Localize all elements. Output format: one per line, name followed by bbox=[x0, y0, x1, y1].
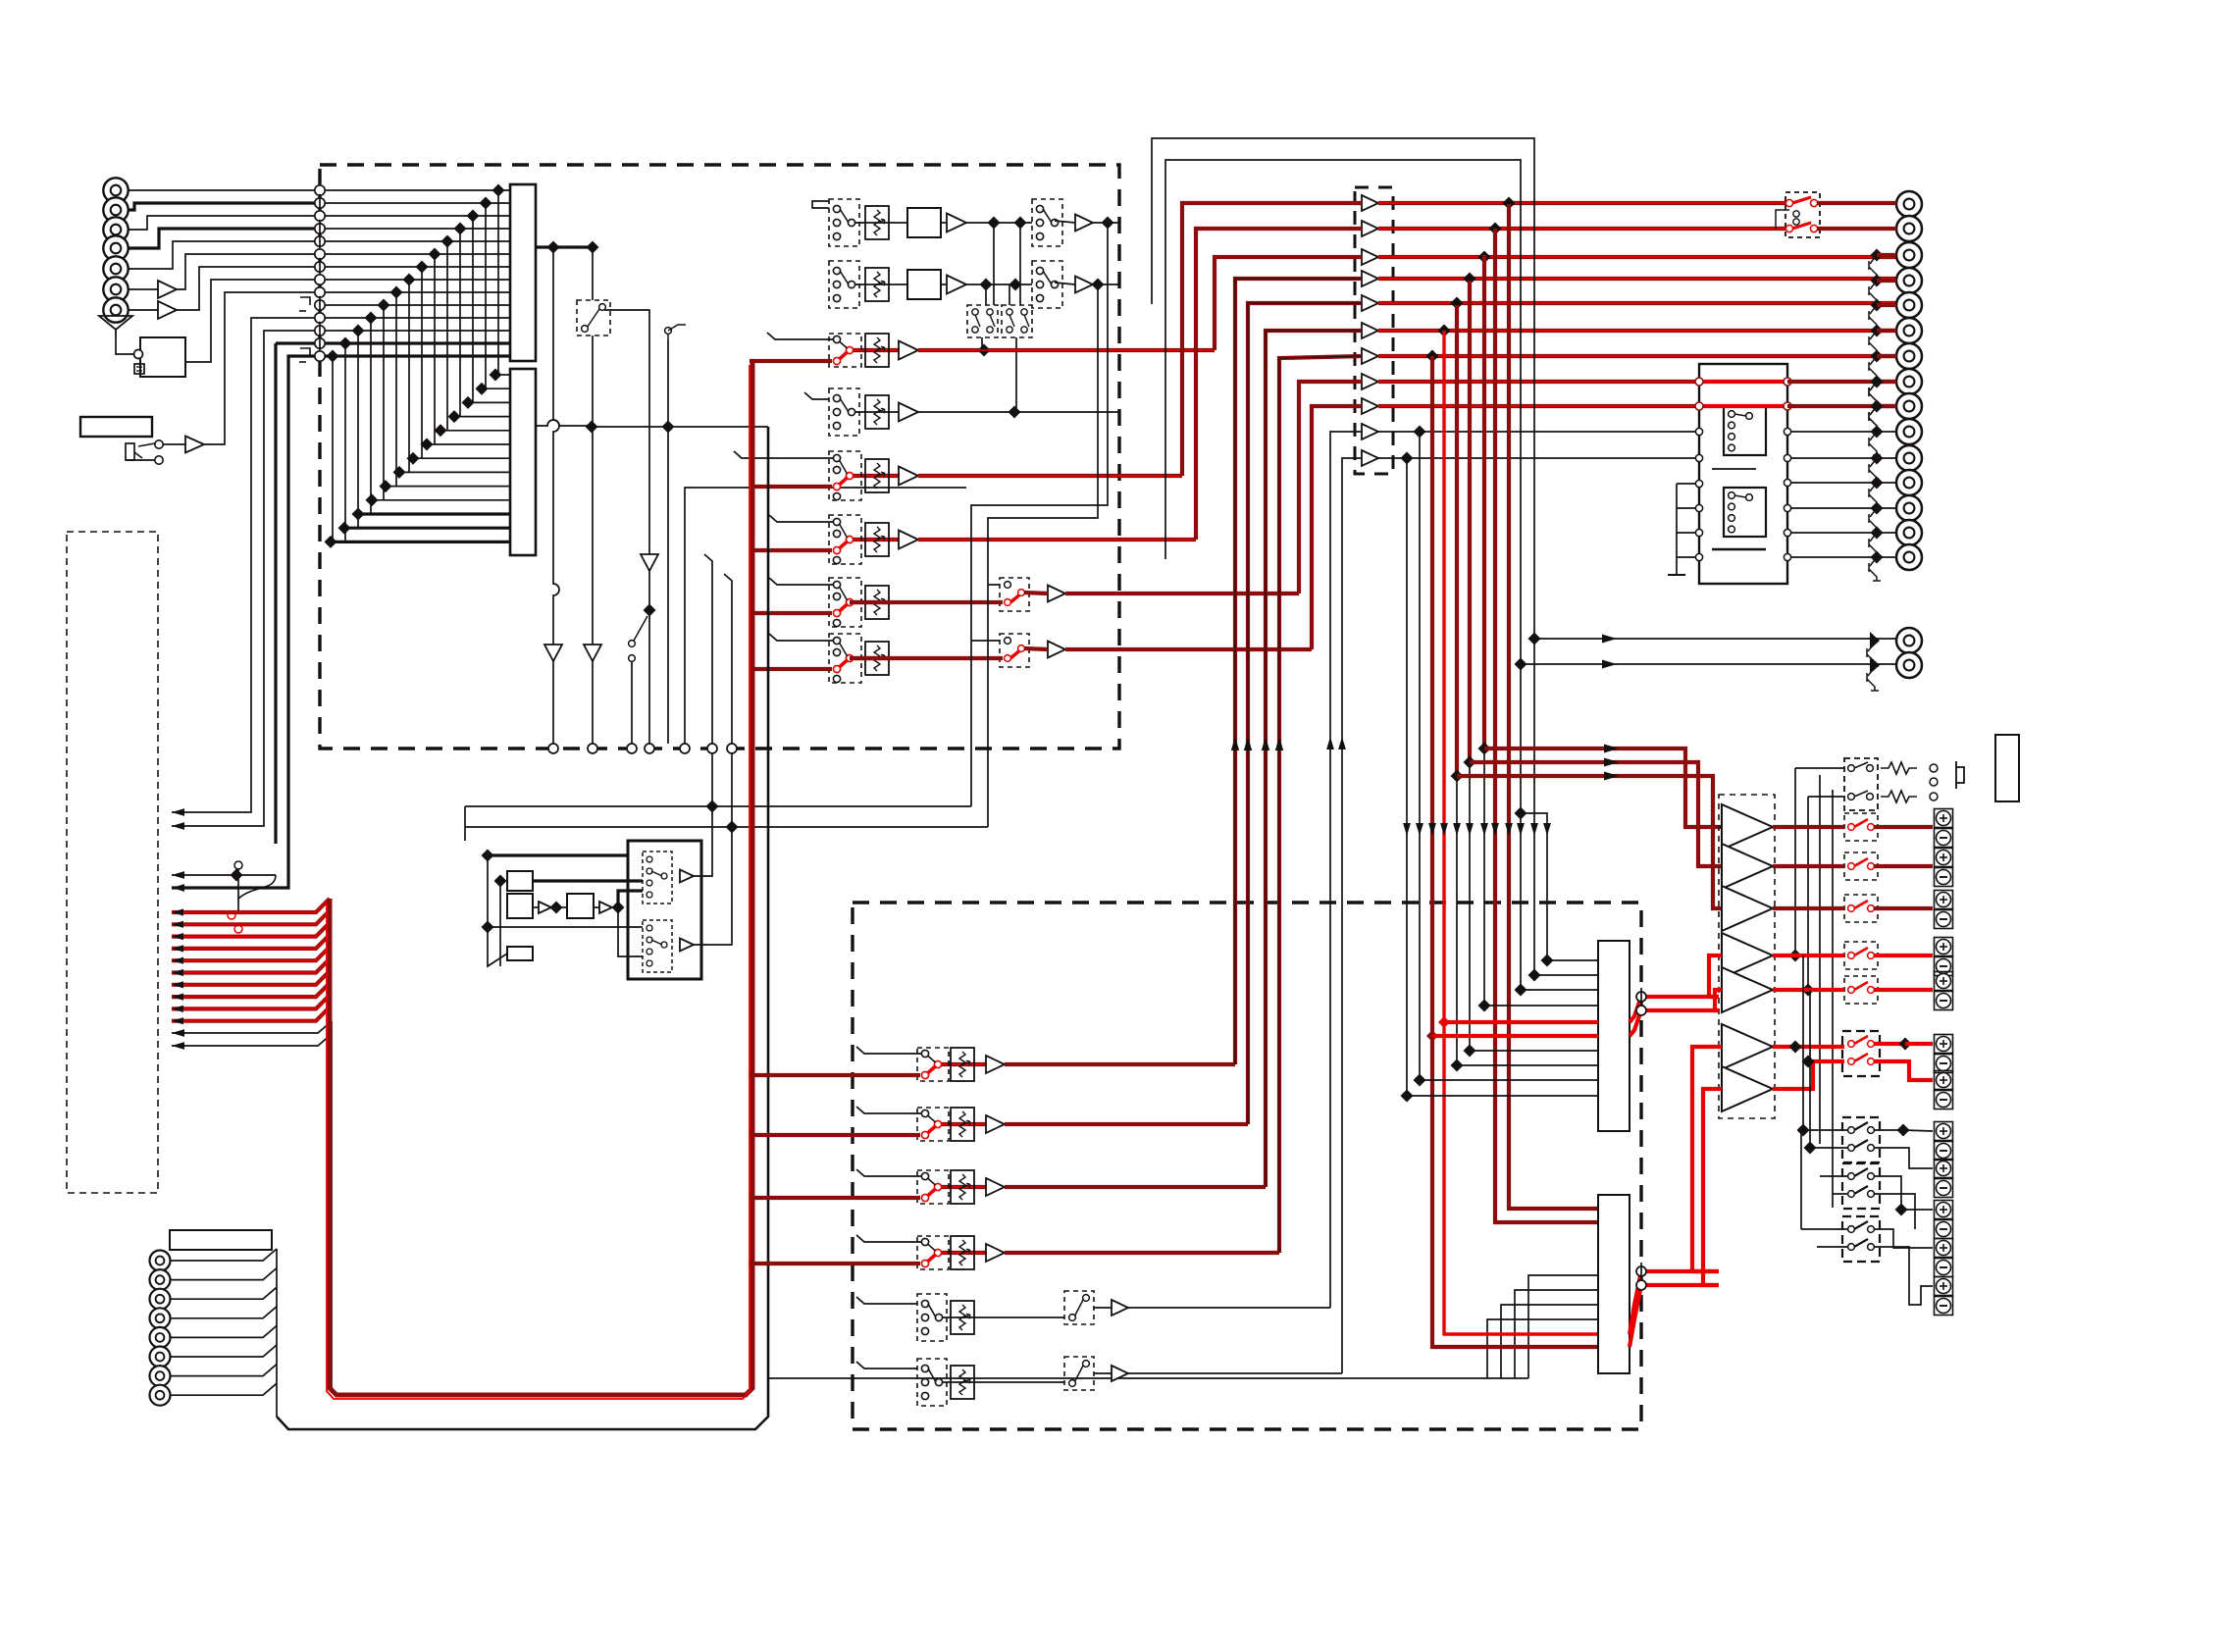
bus out row 3 bbox=[1378, 255, 1900, 259]
mon send 1 bbox=[172, 1021, 332, 1033]
ST bus R vertical bbox=[592, 247, 594, 300]
amp out wire 2 bbox=[1773, 864, 1844, 868]
bus out row 6 bbox=[1378, 329, 1900, 333]
rec out relay bbox=[1785, 192, 1820, 237]
power indicator box bbox=[80, 417, 152, 437]
bus out row 9 bbox=[1378, 404, 1699, 408]
monitor feed wire 2 bbox=[1470, 762, 1722, 866]
patch point row 13 bbox=[315, 338, 325, 348]
bus out row 10 bbox=[1378, 431, 1695, 433]
mute transistor 5 bbox=[1871, 299, 1884, 312]
matrix1 row 6 bbox=[325, 253, 510, 255]
channel switch CH1 bbox=[829, 334, 861, 367]
speaker switch 2 bbox=[1844, 852, 1878, 880]
relay output contact y492 bbox=[1784, 479, 1790, 486]
FX dsp C bbox=[567, 894, 594, 918]
bottom connector wire 1 bbox=[171, 1249, 277, 1261]
pan wiring bbox=[993, 223, 995, 305]
matrix2 row 1 bbox=[495, 374, 510, 376]
feed T5 riser bbox=[1248, 303, 1362, 1124]
drop main-L column bbox=[1509, 204, 1598, 1209]
control line to monitor bus bbox=[768, 1377, 1528, 1379]
bus amp T4 bbox=[1362, 271, 1378, 286]
relay input contact y467 bbox=[1695, 454, 1702, 461]
wire input 5 bbox=[129, 241, 320, 269]
channel fader CH1 bbox=[865, 334, 889, 367]
input connector J7 bbox=[103, 297, 128, 322]
phones feed wires bbox=[1819, 775, 1821, 1144]
patch point row 2 bbox=[315, 198, 325, 208]
monitor channel M5 bbox=[917, 1359, 947, 1406]
wire M5 out bbox=[1128, 1372, 1342, 1374]
channel fader ST1 bbox=[865, 206, 889, 239]
C1 red row L bbox=[1444, 1020, 1598, 1024]
matrix3 junction 1513 bbox=[1478, 1000, 1491, 1012]
wire ST2-CH5 switch bbox=[988, 584, 1000, 586]
bus arrow x1577 bbox=[1543, 823, 1551, 836]
bottom connector 1 bbox=[150, 1251, 171, 1271]
channel through wire CH6 bbox=[850, 656, 889, 660]
aux send wire 6 bbox=[172, 959, 330, 973]
relay output wire y440 bbox=[1791, 431, 1896, 433]
output connector O10 bbox=[1896, 419, 1922, 444]
border patch 7 bbox=[727, 744, 737, 753]
output connector O13 bbox=[1896, 495, 1922, 521]
mute transistor 3 bbox=[1871, 249, 1884, 262]
feed T6 riser bbox=[1266, 331, 1362, 1187]
matrix3 row 1485 bbox=[1457, 1064, 1598, 1066]
aux send wire 4 bbox=[172, 935, 330, 949]
aux master switch bbox=[629, 641, 636, 647]
bus amp T6 bbox=[1362, 323, 1378, 338]
matrix3 row 1513 bbox=[1484, 1005, 1598, 1007]
bottom connector 7 bbox=[150, 1366, 171, 1386]
border patch 6 bbox=[707, 744, 717, 753]
relay output contact y467 bbox=[1784, 454, 1790, 461]
bus amp T10 bbox=[1362, 424, 1378, 439]
bottom connector 8 bbox=[150, 1385, 171, 1406]
amp7 out wire bbox=[1773, 1061, 1844, 1089]
fx send vertical 1 bbox=[704, 554, 712, 744]
drop main-R column bbox=[1495, 229, 1598, 1222]
border patch 1 bbox=[548, 744, 558, 753]
output connector O2 bbox=[1896, 216, 1922, 241]
wire CH4 out bbox=[918, 538, 1196, 542]
matrix1 row 4 bbox=[325, 228, 510, 230]
top rail 2 bbox=[1165, 160, 1521, 990]
branch column 12 bbox=[1521, 813, 1547, 960]
bottom connector wire 4 bbox=[171, 1307, 277, 1318]
wire ST1-CH6 switch bbox=[971, 640, 1000, 642]
output connector O16 bbox=[1896, 628, 1922, 653]
bus arrow x1434 bbox=[1403, 823, 1411, 836]
phones jack bbox=[1930, 764, 1938, 772]
bus arrow x1498 bbox=[1466, 823, 1474, 836]
oscillator block bbox=[140, 337, 185, 377]
bus out row 11 bbox=[1378, 457, 1695, 459]
ST2 monitor vertical bbox=[988, 284, 1098, 827]
matrix3 junction 1434 bbox=[1401, 1090, 1414, 1103]
M4 amp bbox=[1112, 1300, 1128, 1316]
output connector O8 bbox=[1896, 369, 1922, 394]
matrix1 row 10 bbox=[325, 304, 510, 306]
drop grp2 column red bbox=[1468, 281, 1472, 762]
monitor dashed border bbox=[853, 903, 1641, 1429]
speaker terminal 3 bbox=[1935, 891, 1953, 909]
amp feed 6 bbox=[1692, 1047, 1722, 1271]
buffer column dashed box bbox=[1355, 187, 1393, 474]
select switch ST1 bbox=[1032, 199, 1062, 246]
extension switch group 2 bbox=[1842, 1163, 1880, 1209]
aux send wire 10 bbox=[172, 1007, 330, 1021]
channel switch CH4 bbox=[829, 515, 861, 564]
top rail 1 bbox=[1152, 138, 1534, 975]
output connector O9 bbox=[1896, 393, 1922, 419]
hook row 10 bbox=[300, 297, 310, 305]
relay input contact y568 bbox=[1695, 553, 1702, 560]
bus arrow x1524 bbox=[1491, 823, 1499, 836]
channel through wire CH1 bbox=[850, 348, 899, 352]
wire ST1 out bbox=[1093, 222, 1119, 224]
bus amp T8 bbox=[1362, 374, 1378, 389]
monitor channel M0 bbox=[938, 1062, 986, 1066]
patch point row 14 bbox=[315, 351, 325, 361]
output connector O5 bbox=[1896, 292, 1922, 318]
patch point row 5 bbox=[315, 236, 325, 246]
matrix2 row 7 bbox=[413, 457, 510, 459]
input connector J3 bbox=[103, 217, 128, 241]
matrix column 13 bbox=[344, 343, 346, 542]
matrix2 row 11 bbox=[358, 512, 510, 515]
matrix column 7 bbox=[421, 267, 423, 458]
matrix column 9 bbox=[395, 292, 397, 487]
amp out wire 3 bbox=[1773, 906, 1844, 910]
channel switch ST1 bbox=[829, 199, 859, 246]
mute transistor y518 bbox=[1871, 502, 1884, 515]
wire input 4 bbox=[129, 229, 320, 248]
relay output contact y518 bbox=[1784, 504, 1790, 511]
output connector O17 bbox=[1896, 652, 1922, 678]
extension switch group 1 bbox=[1842, 1117, 1880, 1162]
matrix1 row 13 bbox=[325, 341, 510, 344]
output connector O11 bbox=[1896, 445, 1922, 471]
speaker terminal 4 bbox=[1935, 938, 1953, 956]
mixer block dashed border bbox=[320, 165, 1119, 749]
patch point row 8 bbox=[315, 275, 325, 284]
chassis ground bbox=[99, 316, 132, 337]
wire mono out bbox=[604, 310, 649, 554]
speaker terminal 2 bbox=[1935, 849, 1953, 867]
footswitch amp bbox=[185, 437, 204, 453]
wires ST2 bbox=[889, 284, 907, 285]
speaker terminal 8 bbox=[1935, 1122, 1953, 1141]
aux send wire 5 bbox=[172, 947, 330, 960]
patch point row 10 bbox=[315, 300, 325, 310]
input connector J5 bbox=[103, 256, 128, 281]
wire input 2 bbox=[129, 203, 320, 210]
FX crossbar 2 bbox=[465, 826, 988, 828]
bus out row 5 bbox=[1378, 301, 1900, 305]
relay unit 1 bbox=[1724, 406, 1766, 455]
FX crossbar 1 bbox=[465, 805, 971, 807]
EQ block ST2 bbox=[907, 270, 941, 299]
input amp A1 bbox=[158, 281, 177, 298]
wires ST1 bbox=[889, 222, 907, 224]
bottom connector wire 3 bbox=[171, 1287, 277, 1299]
amp feed 5 bbox=[1715, 990, 1722, 1010]
output connector O12 bbox=[1896, 470, 1922, 495]
select switch CH6 bbox=[1000, 634, 1029, 667]
wire CH5 out bbox=[1065, 592, 1299, 595]
amp out wire 5 bbox=[1773, 988, 1844, 992]
feed T11 riser bbox=[1342, 458, 1362, 1373]
select switch CH5 bbox=[1000, 578, 1029, 611]
mute transistor 6 bbox=[1871, 325, 1884, 337]
input connector J1 bbox=[103, 178, 128, 202]
speaker terminal 12 bbox=[1935, 1277, 1953, 1296]
matrix3 junction 1577 bbox=[1541, 955, 1554, 967]
patch point row 12 bbox=[315, 326, 325, 336]
channel fader CH5 bbox=[865, 586, 889, 619]
bus amp T3 bbox=[1362, 249, 1378, 265]
monitor C2 staircase 2 bbox=[1501, 1305, 1598, 1378]
patch point row 7 bbox=[315, 262, 325, 272]
monitor speaker switch group bbox=[1842, 1031, 1880, 1076]
C2 red out pair bbox=[1630, 1271, 1719, 1334]
aux send wire 1 bbox=[172, 899, 330, 912]
EQ block ST1 bbox=[907, 208, 941, 237]
bus arrow x1472 bbox=[1440, 823, 1448, 836]
matrix column 3 bbox=[472, 216, 474, 402]
ST L master amp bbox=[544, 645, 562, 661]
speaker terminal 7 bbox=[1935, 1071, 1953, 1090]
phones resistor 1 bbox=[1881, 762, 1917, 774]
relay red pass 2 bbox=[1699, 404, 1787, 408]
drop grp1 column black bbox=[1483, 749, 1485, 1006]
amp ST2 bbox=[947, 276, 966, 294]
FX dsp D bbox=[507, 947, 533, 960]
matrix2 row 6 bbox=[427, 443, 510, 445]
channel fader CH2 bbox=[865, 395, 889, 429]
FX wiring bbox=[488, 855, 507, 966]
FX amp B bbox=[539, 902, 551, 913]
aux send wire 7 bbox=[172, 971, 330, 985]
border patch 5 bbox=[680, 744, 690, 753]
channel fader CH6 bbox=[865, 642, 889, 675]
monitor channel M3 bbox=[938, 1251, 986, 1255]
wire CH2 in bbox=[804, 392, 829, 399]
speaker switch 1 bbox=[1844, 813, 1878, 841]
matrix3 junction 1550 bbox=[1515, 984, 1527, 997]
fader link ST2 bbox=[854, 284, 889, 285]
bus amp T11 bbox=[1362, 450, 1378, 466]
matrix column 10 bbox=[383, 305, 385, 500]
power amp P3 bbox=[1722, 886, 1773, 931]
matrix3 row 1434 bbox=[1407, 1095, 1598, 1097]
wire input 7 bbox=[129, 309, 158, 311]
channel amp CH3 bbox=[899, 467, 918, 486]
aux send wire 9 bbox=[172, 995, 330, 1008]
M4 switch2 bbox=[1064, 1291, 1094, 1324]
channel switch CH2 bbox=[829, 388, 859, 436]
matrix3 junction 1564 bbox=[1528, 969, 1541, 982]
ST1 monitor vertical bbox=[971, 223, 1108, 806]
bottom connector 4 bbox=[150, 1308, 171, 1328]
matrix2 row 8 bbox=[399, 471, 510, 473]
speaker terminal 11 bbox=[1935, 1239, 1953, 1258]
speaker terminal 9 bbox=[1935, 1160, 1953, 1178]
power amp P6 bbox=[1722, 1024, 1773, 1069]
channel switch CH6 bbox=[829, 634, 861, 683]
amp6 out wire bbox=[1773, 1045, 1844, 1049]
ext3 wiring bbox=[1801, 1228, 1848, 1230]
bus amp T7 bbox=[1362, 348, 1378, 364]
power transformer box bbox=[1995, 735, 2019, 801]
exp wire 2 bbox=[172, 331, 315, 826]
power amp P2 bbox=[1722, 844, 1773, 889]
patch point row 1 bbox=[315, 185, 325, 195]
power amp dashed box bbox=[1719, 795, 1775, 1118]
monitor feed wire 3 bbox=[1457, 776, 1722, 908]
fader link ST1 bbox=[854, 222, 889, 224]
patch point row 6 bbox=[315, 249, 325, 259]
border patch 3 bbox=[627, 744, 637, 753]
relay input contact y493 bbox=[1695, 480, 1702, 487]
relay ground bracket bbox=[1676, 484, 1678, 575]
amp out wire 4 bbox=[1773, 954, 1844, 957]
amp feed 7 bbox=[1703, 1089, 1722, 1285]
feed T9 from CH6 bbox=[1312, 406, 1362, 649]
input connector J6 bbox=[103, 277, 128, 301]
insert curve bbox=[238, 875, 276, 899]
mute transistor 4 bbox=[1871, 275, 1884, 287]
monitor C2 staircase 3 bbox=[1515, 1290, 1598, 1378]
floor bus red bright bbox=[327, 365, 750, 1399]
matrix3 row 1564 bbox=[1534, 974, 1598, 976]
M5 amp bbox=[1112, 1366, 1128, 1381]
bottom connector 3 bbox=[150, 1289, 171, 1310]
drop grp3 column red bbox=[1455, 305, 1459, 776]
mute transistor y568 bbox=[1871, 551, 1884, 564]
relay output wire y568 bbox=[1791, 556, 1896, 558]
hook row 14 bbox=[300, 348, 310, 356]
ext2 wiring bbox=[1820, 1175, 1848, 1177]
channel fader CH4 bbox=[865, 523, 889, 556]
mon bundle vertical bbox=[331, 1021, 333, 1391]
bus block B1 bbox=[510, 184, 536, 361]
matrix2 row 2 bbox=[482, 387, 510, 389]
wire CH6 out bbox=[1065, 647, 1312, 651]
phones resistor 2 bbox=[1881, 791, 1917, 802]
ST bus takeoff bbox=[536, 245, 593, 248]
FX amp 1 bbox=[680, 870, 694, 883]
wire input 6 bbox=[129, 288, 158, 290]
mono master amp bbox=[641, 554, 658, 571]
channel through wire CH5 bbox=[850, 600, 889, 604]
output connector O15 bbox=[1896, 544, 1922, 570]
speaker terminal 1 bbox=[1935, 809, 1953, 828]
bus arrow x1550 bbox=[1517, 823, 1525, 836]
matrix1 row 2 bbox=[325, 202, 510, 204]
bottom connector wire 2 bbox=[171, 1268, 277, 1280]
power amp P1 bbox=[1722, 804, 1773, 850]
output connector O7 bbox=[1896, 343, 1922, 369]
speaker terminal 10 bbox=[1935, 1201, 1953, 1219]
relay wiring bbox=[1776, 210, 1789, 229]
aux send wire 3 bbox=[172, 923, 330, 937]
wire ground-oscillator bbox=[116, 337, 134, 354]
amp ST1 bbox=[947, 214, 966, 232]
amp CH6 bbox=[1048, 642, 1065, 658]
wire CH5 in bbox=[769, 578, 834, 585]
rec out wire 2 bbox=[1521, 663, 1896, 665]
feed T2 from CH4 bbox=[1196, 229, 1362, 540]
relay output wire y492 bbox=[1791, 482, 1896, 484]
mute transistor y467 bbox=[1871, 452, 1884, 465]
feed T3 from CH1 bbox=[1215, 257, 1362, 350]
matrix column 11 bbox=[370, 318, 372, 514]
bus amp T1 bbox=[1362, 195, 1378, 211]
main relay block bbox=[1699, 364, 1787, 584]
monitor feed wire 1 bbox=[1484, 749, 1722, 827]
relay output wire y543 bbox=[1791, 532, 1896, 534]
exp wire 4 bbox=[172, 356, 315, 888]
fx send vertical 2 bbox=[724, 574, 732, 744]
aux send wire 8 bbox=[172, 983, 330, 997]
relay input contact y543 bbox=[1695, 529, 1702, 536]
matrix1 row 3 bbox=[325, 215, 510, 217]
matrix3 row 1498 bbox=[1470, 1050, 1598, 1052]
matrix2 row 9 bbox=[386, 486, 510, 488]
output connector O4 bbox=[1896, 268, 1922, 293]
matrix2 row 5 bbox=[440, 430, 510, 432]
pan block B bbox=[1002, 305, 1032, 337]
matrix column 1 bbox=[497, 190, 499, 375]
speaker switch 3 bbox=[1844, 895, 1878, 922]
bottom connector wire 5 bbox=[171, 1325, 277, 1337]
drop grp2 column black bbox=[1469, 762, 1471, 1051]
matrix2 row 4 bbox=[454, 416, 510, 418]
matrix column 14 bbox=[332, 356, 334, 542]
input connector J4 bbox=[103, 235, 128, 260]
relay red pass 1 bbox=[1699, 380, 1787, 384]
matrix3 row 1577 bbox=[1547, 959, 1598, 961]
matrix column 2 bbox=[485, 203, 487, 388]
matrix column 12 bbox=[357, 331, 359, 528]
power amp P7 bbox=[1722, 1066, 1773, 1111]
bus out row 4 bbox=[1378, 277, 1900, 281]
bottom connector 5 bbox=[150, 1327, 171, 1348]
wire ST1 feed bbox=[812, 201, 829, 208]
matrix column 6 bbox=[434, 254, 436, 444]
wire CH6 in bbox=[769, 634, 834, 641]
C1 red row R bbox=[1432, 1034, 1598, 1038]
channel amp CH2 bbox=[899, 403, 918, 422]
FX return wire 1 bbox=[694, 753, 712, 876]
matrix3 junction 1485 bbox=[1451, 1059, 1464, 1072]
wire input 3 bbox=[129, 216, 320, 230]
monitor channel M4 bbox=[917, 1294, 947, 1341]
drop grp3 column black bbox=[1456, 776, 1458, 1065]
bus amp T5 bbox=[1362, 295, 1378, 311]
speaker terminal 6 bbox=[1935, 1035, 1953, 1054]
relay input contact y440 bbox=[1695, 428, 1702, 435]
feed T10 riser bbox=[1330, 432, 1362, 1308]
relay output contact y543 bbox=[1784, 529, 1790, 536]
floor bus black bbox=[277, 427, 768, 1429]
input connector J2 bbox=[103, 197, 128, 222]
matrix1 row 8 bbox=[325, 279, 510, 281]
